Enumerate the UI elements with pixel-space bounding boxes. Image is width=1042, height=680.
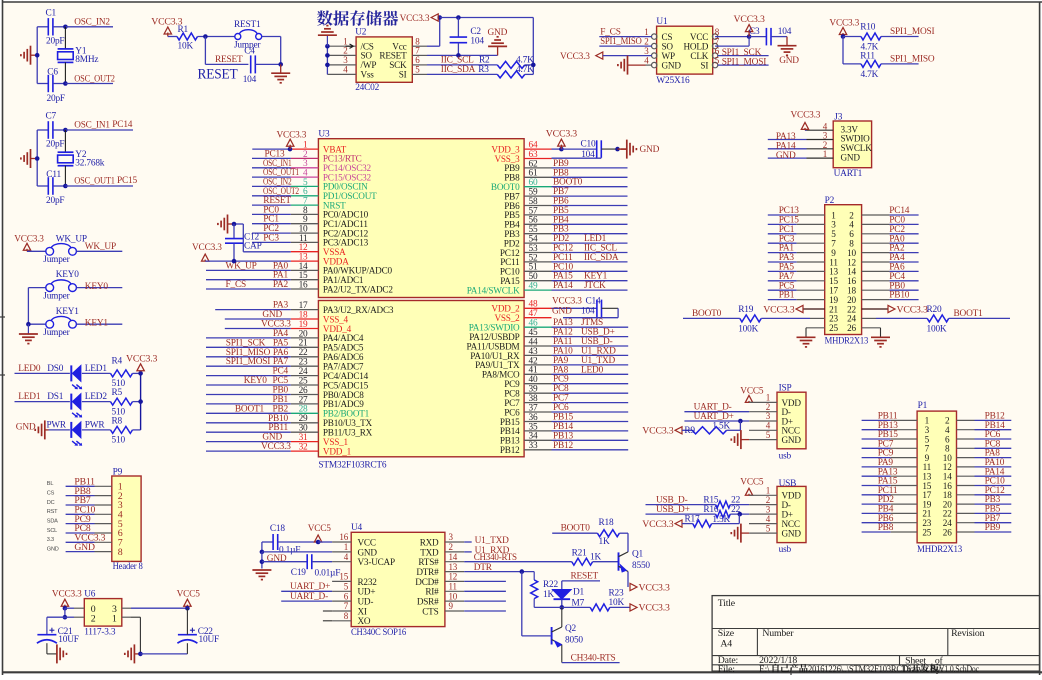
svg-text:GND: GND [47,546,59,552]
svg-text:VCC3.3: VCC3.3 [52,590,82,600]
U3 pin 33 PB12 [500,441,628,455]
svg-text:40: 40 [529,375,538,385]
P1 pins 17/18 [922,490,952,500]
svg-text:VCC3.3: VCC3.3 [733,14,764,25]
svg-text:VCC3.3: VCC3.3 [14,234,44,244]
svg-text:R9: R9 [684,426,695,436]
svg-text:SPI1_MISO: SPI1_MISO [600,37,642,47]
U4 pin 7 XI [332,601,367,616]
net U1_RXD [464,546,509,556]
capacitor C14 [552,300,619,318]
svg-text:20pF: 20pF [47,94,65,104]
power VCC3.3 (LED) [126,353,157,371]
svg-text:P1: P1 [918,401,928,411]
svg-text:R8: R8 [112,416,123,426]
svg-text:CS: CS [662,32,673,42]
svg-text:USB: USB [779,479,797,489]
svg-text:PB2/BOOT1: PB2/BOOT1 [323,409,370,419]
svg-text:PB9: PB9 [985,523,1001,533]
U3 pin 49 PA14/SWCLK [467,281,628,295]
resistor R9 [642,421,730,436]
U4 pin9 wire [464,610,506,612]
svg-text:PC3: PC3 [263,233,279,243]
wire Q1 emitter [627,572,629,588]
net BOOT0 (Q1) [552,524,597,534]
capacitor C1 [37,9,65,47]
svg-text:2: 2 [91,614,96,625]
svg-text:VCC3.3: VCC3.3 [261,442,291,452]
svg-text:PB8: PB8 [878,523,894,533]
title block line h1 [712,628,1040,630]
svg-text:104: 104 [243,75,257,85]
net USB_D- (USB) [646,495,719,505]
svg-text:10K: 10K [609,598,625,608]
svg-text:OSC_IN2: OSC_IN2 [74,17,110,27]
svg-text:DS1: DS1 [47,392,64,402]
svg-text:C19: C19 [291,568,307,578]
svg-text:GND: GND [552,307,572,317]
net KEY1 [76,318,122,328]
svg-text:43: 43 [529,347,538,357]
U3 pin 50 PA15 [500,272,627,286]
ground (U4) [252,570,271,580]
svg-text:V1.0.SchDoc: V1.0.SchDoc [939,665,979,675]
U2 pin 1 /CS [327,36,373,51]
jumper KEY1 [28,307,79,338]
net KEY0 [76,282,122,292]
svg-text:Drawn By:: Drawn By: [902,664,943,675]
U2 pin 5 SI [399,65,421,80]
svg-text:MHDR2X13: MHDR2X13 [917,545,962,555]
U3 pin 24 PC4/ADC14 [206,367,369,381]
ground (C21) [47,643,67,663]
svg-text:R5: R5 [112,388,123,398]
svg-text:6: 6 [415,55,420,65]
title block frame [712,596,1040,672]
wire REST1 to corner [262,37,281,65]
svg-text:WK_UP: WK_UP [226,261,257,271]
wire LED vcc vertical [140,373,142,430]
svg-text:104: 104 [778,27,792,37]
svg-text:8050: 8050 [565,636,583,646]
svg-text:GND: GND [841,152,861,162]
svg-text:104: 104 [470,37,484,47]
title block line v1 [756,629,758,656]
svg-text:SPI1_SCK: SPI1_SCK [226,338,266,348]
svg-text:16: 16 [339,532,348,542]
svg-text:20161226\..\STM32F103RCT6: 20161226\..\STM32F103RCT6 [808,665,912,675]
svg-text:RESET: RESET [379,51,407,61]
svg-text:R4: R4 [112,356,123,366]
svg-text:R21: R21 [572,548,588,558]
sheet border top [3,1,1042,3]
wire U6 in [65,607,84,609]
svg-text:PWR: PWR [47,420,67,430]
svg-text:DS0: DS0 [47,364,64,374]
IC U3 box upper [318,130,524,298]
P1 wire R PA10 [957,458,1012,468]
svg-text:10UF: 10UF [199,635,220,645]
title block date value [759,655,797,666]
svg-text:3: 3 [343,55,348,65]
svg-text:1: 1 [644,27,648,37]
wire VCC rail [440,15,534,20]
svg-text:PA10: PA10 [553,346,573,356]
net WK_UP [76,242,122,252]
U3 pin 20 PA4/ADC4 [206,329,364,343]
connector P1 [917,401,962,555]
P2 wire R7 PA6 [862,263,919,273]
power VCC3.3 (R23) [630,603,670,614]
wire U6 left down [63,608,85,619]
node OSC_OUT2 [63,74,115,85]
net IIC_SCL [412,56,497,66]
ground (C3) [771,37,799,66]
svg-text:5: 5 [715,55,720,65]
resistor R16 [703,505,777,518]
ISP pin 2 D- [766,402,791,417]
svg-text:C6: C6 [47,68,58,78]
svg-text:8: 8 [344,611,349,621]
svg-text:GND: GND [74,542,95,553]
power VCC3.3 (WK_UP) [14,234,46,251]
svg-text:V3-UCAP: V3-UCAP [358,557,395,567]
svg-text:U1_RXD: U1_RXD [581,346,616,356]
capacitor C22 [177,627,219,645]
svg-text:RESET: RESET [198,67,238,83]
U3 pin 63 VSS_3 [494,150,551,164]
capacitor C11 [37,170,65,206]
P9 pin 2 PB8 [47,486,123,502]
wire gnd to C22 [140,643,187,654]
net RESET wire [205,37,248,66]
svg-text:IIC_SDA: IIC_SDA [584,253,619,263]
svg-text:DC: DC [47,500,55,506]
wire U1 pin8 [715,34,751,39]
P2 pins 7/8 numbers [831,239,854,249]
ground (C2) [488,28,508,55]
svg-text:R10: R10 [860,23,876,33]
svg-text:SO: SO [662,41,674,51]
crystal Y1 [58,27,99,84]
svg-text:R23: R23 [609,589,625,599]
wire R5 out [133,399,143,404]
net LED1 [15,392,70,402]
svg-text:PB2: PB2 [272,404,288,414]
resistor R2 [497,56,534,69]
P2 pins 23/24 numbers [829,314,856,324]
title block Sheet [905,655,943,666]
wire M7-Q2 [561,607,563,627]
title block Title [718,598,736,609]
wire U2 pin7 [412,53,497,58]
P1 wire R PC6 [957,430,1012,440]
svg-text:J3: J3 [834,113,842,123]
wire PWR-R8 [82,429,111,431]
J3 pin 2 SWCLK [768,140,872,153]
wire DTR-Q2 base [522,572,552,636]
node OSC_IN1 PC14 [63,120,133,132]
P1 wire L PB8 [862,523,918,533]
U3 pin 59 PB7 [504,187,627,201]
svg-text:Jumper: Jumper [43,328,70,338]
U2 pin1 arrow [346,44,354,48]
U3 pin 4 PC15/OSC32 [252,168,372,182]
U3 pin 27 PB1/ADC9 [206,395,364,409]
svg-text:OSC_OUT1: OSC_OUT1 [74,177,115,187]
svg-text:R2: R2 [479,56,490,66]
svg-text:P2: P2 [825,196,835,206]
U3 pin 18 VSS_4 [225,310,349,324]
ISP pin 1 VDD [766,393,802,408]
ISP pin4 stub [749,429,777,431]
wire C22 top [186,608,188,635]
P1 wire L PA15 [862,477,918,487]
P9 pin 6 PC8 [47,523,123,539]
U3 pin 61 PB8 [504,168,627,182]
svg-text:5: 5 [766,523,771,533]
net SPI1_MOSI (R10) [881,27,935,37]
wire U6 out [122,607,188,609]
ISP pin 3 D+ [766,411,793,426]
USB pin4 stub [749,523,777,525]
svg-text:VCC3.3: VCC3.3 [552,297,582,307]
svg-text:XI: XI [358,606,367,616]
resistor R20 [927,305,949,334]
svg-text:R16: R16 [703,505,719,515]
U3 pin 9 PC1/ADC11 [252,215,368,229]
svg-text:GND: GND [782,529,802,539]
svg-text:GND: GND [640,145,660,155]
P9 pin 7 VCC3.3 [47,533,123,549]
net GND (C14) [552,307,595,317]
U3 pin 17 PA3/U2_RX/ADC3 [215,301,394,315]
svg-text:32: 32 [299,442,308,452]
svg-text:TXD: TXD [420,547,439,557]
net USB_D+ (USB) [646,505,719,515]
border tick left 2 [0,374,5,376]
ground (U1 pin4) [618,56,652,75]
title block File [718,664,735,675]
title block line v3 [899,656,901,665]
U4 pin12 wire [464,580,506,582]
svg-text:Q2: Q2 [565,624,577,634]
U1 pin 8 bubble [690,27,720,42]
P2 wire R4 PA0 [862,234,919,244]
svg-text:14: 14 [449,552,458,562]
svg-text:C4: C4 [244,46,255,56]
svg-text:VCC5: VCC5 [740,477,764,487]
svg-text:GND: GND [782,435,802,445]
net UART_D+ (U4) [281,582,332,592]
U4 pin 1 GND [332,542,377,557]
ISP pin 5 GND [766,430,802,445]
wire P2-R20 [862,317,928,319]
sheet border bottom [3,671,1042,673]
U4 pin 15 R232 [332,572,377,587]
svg-text:R3: R3 [478,65,489,75]
svg-text:HOLD: HOLD [683,41,708,51]
svg-text:CLK: CLK [690,51,708,61]
svg-text:0.01µF: 0.01µF [315,569,341,579]
svg-text:VCC3.3: VCC3.3 [639,603,670,614]
svg-text:1117-3.3: 1117-3.3 [84,627,116,637]
svg-text:GND: GND [779,56,799,66]
svg-text:RESET: RESET [571,572,599,582]
net BOOT0 (R19) [683,309,740,319]
U3 pin 38 PC7 [504,394,628,408]
P2 pins 1/2 numbers [831,210,854,220]
svg-text:WK_UP: WK_UP [85,242,116,252]
net VCC3.3 (C14) [552,297,601,307]
svg-text:U1_TXD: U1_TXD [475,536,510,546]
P1 wire R PB5 [957,505,1012,515]
wire KEY vertical [26,288,31,327]
U3 pin 32 VDD_1 [206,442,352,456]
P2 pins 5/6 numbers [831,229,854,239]
U3 pin 7 NRST [252,196,346,210]
svg-text:USB_D-: USB_D- [656,495,688,505]
svg-text:BOOT0: BOOT0 [692,309,722,319]
U3 pin 16 PA2/U2_TX/ADC2 [206,280,393,294]
U4 pin10 wire [464,600,506,602]
svg-text:VCC3.3: VCC3.3 [126,353,157,364]
svg-text:PC6: PC6 [553,403,569,413]
U3 pin 54 PD2 [504,234,628,248]
net UART_D- (ISP) [684,403,777,413]
svg-text:R15: R15 [703,495,719,505]
svg-text:Title: Title [718,598,736,609]
svg-text:VCC5: VCC5 [177,590,201,600]
svg-text:GND: GND [662,60,682,70]
svg-text:20pF: 20pF [46,140,64,150]
svg-text:U2: U2 [355,28,367,38]
U3 pin 41 PA8/MCO [482,365,628,379]
svg-text:Size: Size [718,628,735,639]
svg-text:Revision: Revision [951,628,985,639]
wire R8 out [133,429,141,431]
svg-text:6: 6 [344,591,349,601]
svg-text:PC6: PC6 [504,407,520,417]
svg-text:WP: WP [662,51,675,61]
P1 wire L PB4 [862,505,918,515]
svg-text:10UF: 10UF [58,635,79,645]
svg-text:24C02: 24C02 [355,83,379,93]
U3 pin 34 PB13 [500,431,628,445]
P1 wire L PC11 [862,486,918,496]
P2 pins 11/12 numbers [829,257,856,267]
U3 pin 21 PA5/ADC5 [206,338,364,352]
power VCC3.3 (VDDA) [192,243,291,264]
wire Y2 left vertical [36,130,38,186]
U3 pin 42 PA9/U1_TX [475,356,628,370]
P1 pins 1/2 [925,416,950,426]
U3 pin 48 VDD_2 [491,300,551,314]
net RESET (D1) [562,572,600,582]
resistor R23 [562,589,630,611]
svg-text:IIC_SCL: IIC_SCL [441,56,474,66]
ground (ISP) [731,430,777,449]
svg-text:LED0: LED0 [18,364,41,374]
U3 pin 12 VSSA [291,243,346,257]
svg-text:SDA: SDA [47,518,58,524]
net GND (J3) [776,151,796,161]
resistor R8 [111,416,133,445]
P1 pins 7/8 [925,444,950,454]
wire VSSA bend [234,224,291,252]
svg-text:1: 1 [344,542,348,552]
sheet border right [1039,2,1041,675]
svg-text:7: 7 [344,601,349,611]
svg-text:100K: 100K [927,324,947,334]
P2 pin21 VCC3.3 [763,304,824,315]
svg-text:LED2: LED2 [85,392,108,402]
svg-text:VCC3.3: VCC3.3 [546,129,577,140]
svg-text:CH340-RTS: CH340-RTS [474,552,517,562]
IC U4 box [351,523,445,638]
jumper REST1 [234,20,262,50]
svg-text:VSS_2: VSS_2 [494,313,520,323]
svg-text:C3: C3 [749,27,760,37]
svg-text:VCC3.3: VCC3.3 [642,519,673,530]
U3 pin 22 PA6/ADC6 [206,348,364,362]
U3 pin 3 PC14/OSC32 [252,159,372,173]
U3 pin 5 PD0/OSCIN [252,177,368,191]
svg-text:VDD: VDD [782,491,802,501]
svg-text:1: 1 [766,485,770,495]
U3 pin 44 PA11/USBDM [467,337,629,351]
svg-text:GND: GND [358,547,378,557]
USB pin 2 D- [766,495,791,510]
svg-text:SI: SI [399,70,407,80]
U3 pin 45 PA12/USBDP [469,328,628,342]
svg-text:KEY1: KEY1 [85,318,109,328]
svg-text:DCD#: DCD# [415,577,439,587]
svg-text:BOOT1: BOOT1 [235,404,265,414]
border tick left 1 [0,316,5,318]
svg-text:PA5/ADC5: PA5/ADC5 [323,343,364,353]
U3 pin 13 VDDA [291,253,349,267]
P2 pins 9/10 numbers [831,248,856,258]
power VCC3.3 (R10) [829,18,859,38]
svg-text:1K: 1K [590,552,601,562]
LED DS0 [71,364,107,389]
P1 pins 5/6 [925,434,950,444]
svg-text:4: 4 [766,514,771,524]
svg-text:VCC3.3: VCC3.3 [192,243,222,253]
power VCC5 (U6) [177,590,201,611]
title block A4 [720,639,732,650]
P1 wire R PA8 [957,449,1012,459]
svg-text:RI#: RI# [425,587,439,597]
border tick bottom [790,668,792,675]
svg-text:22: 22 [299,348,308,358]
svg-text:18: 18 [299,310,308,320]
U3 pin 35 PB14 [500,422,628,436]
P9 pin 8 GND [47,542,123,558]
net UART_D+ (ISP) [684,412,777,424]
capacitor C3 [749,27,792,46]
USB pin 1 VDD [766,485,802,500]
U3 pin 14 PA0/WKUP/ADC0 [206,261,393,275]
svg-text:15: 15 [339,572,348,582]
P2 wire L6 PA3 [768,253,825,263]
net UART_D- (U4) [281,592,332,602]
ISP pin 4 NCC [766,421,800,436]
svg-text:RESET: RESET [215,55,243,65]
diode D1 [552,588,584,600]
U4 pin 3 RXD [420,532,465,547]
